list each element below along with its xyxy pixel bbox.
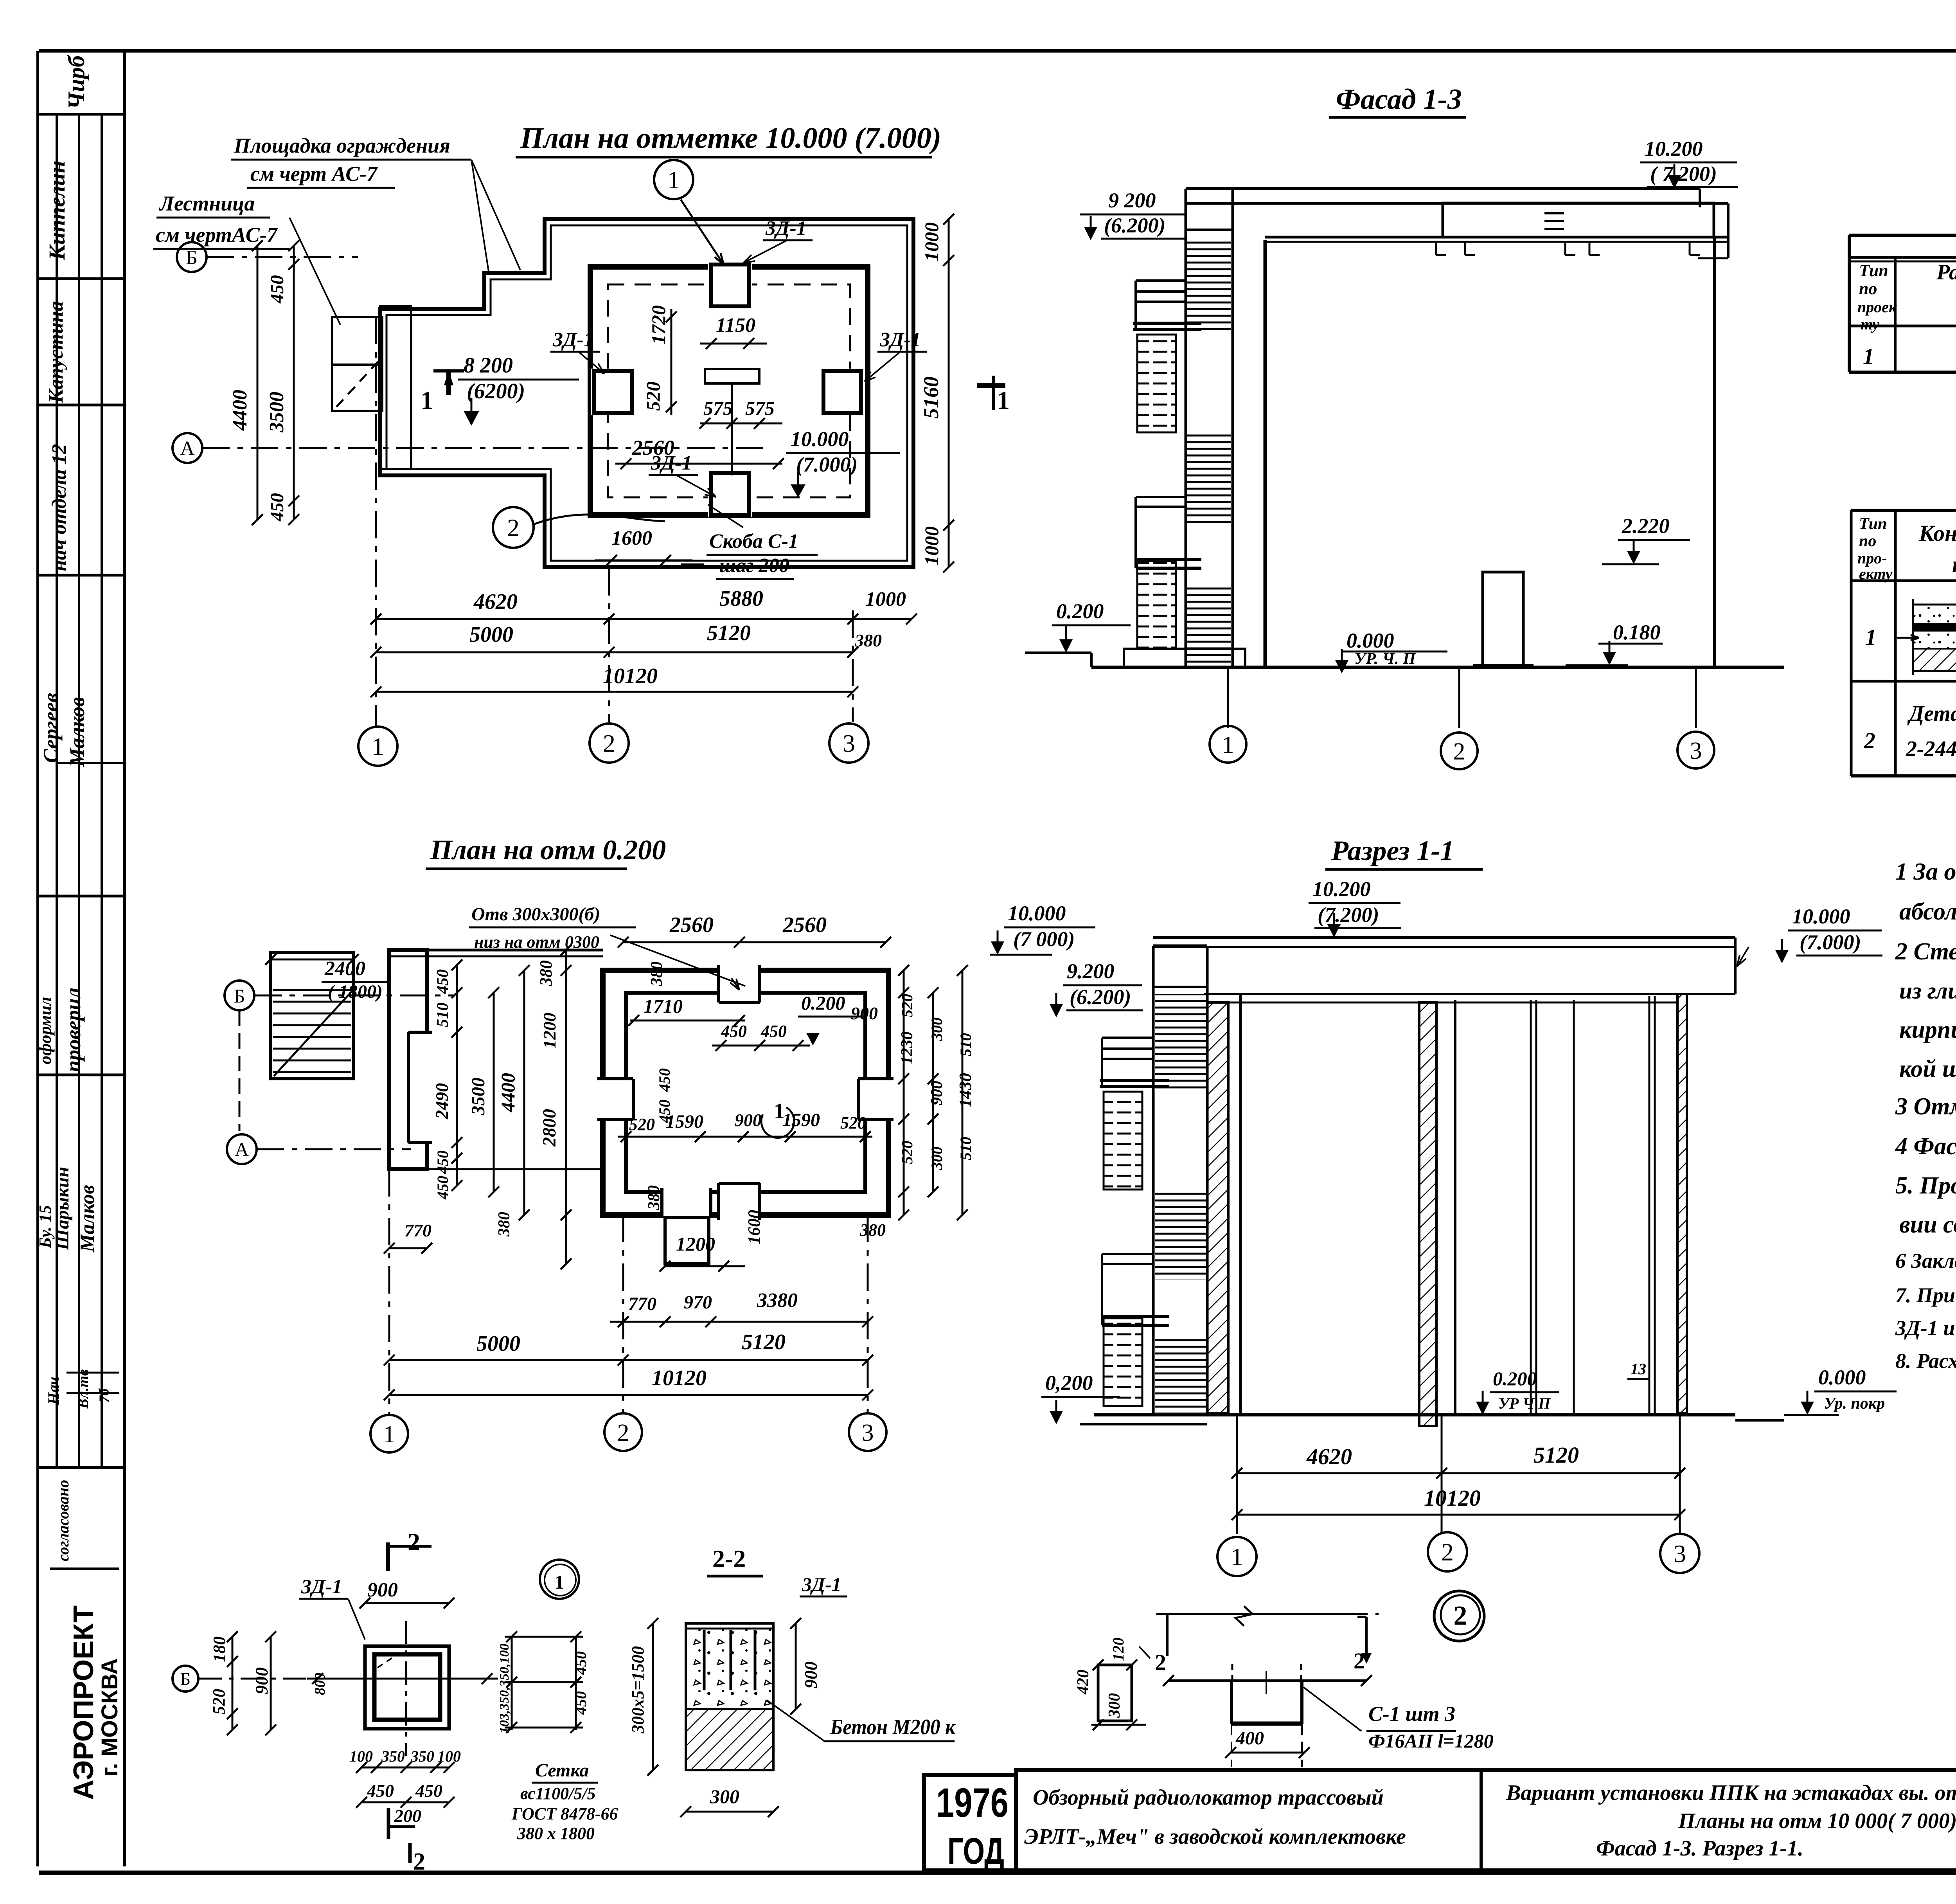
svg-text:450: 450 [434,969,452,994]
svg-text:Скоба С-1: Скоба С-1 [709,530,798,552]
svg-text:450: 450 [721,1022,747,1041]
svg-text:План на отметке 10.000 (7.000): План на отметке 10.000 (7.000) [520,122,941,155]
svg-text:2800: 2800 [539,1109,560,1147]
svg-text:420: 420 [1074,1670,1092,1695]
svg-text:1430: 1430 [956,1073,975,1107]
svg-text:2490: 2490 [432,1083,452,1119]
svg-text:180: 180 [210,1636,229,1662]
svg-text:по: по [1859,279,1877,298]
svg-text:10120: 10120 [1424,1485,1481,1511]
svg-text:Ф16АII l=1280: Ф16АII l=1280 [1368,1730,1494,1752]
svg-text:2 Стены здания выполнять: 2 Стены здания выполнять из силикатного … [1895,938,1956,965]
svg-text:4620: 4620 [1306,1444,1352,1469]
svg-text:1: 1 [1222,732,1234,758]
svg-text:1200: 1200 [676,1233,715,1255]
svg-text:2: 2 [1864,728,1875,753]
svg-text:450: 450 [572,1651,590,1675]
svg-text:300: 300 [710,1785,739,1807]
svg-text:0.000: 0.000 [1347,629,1394,652]
svg-text:Конструкция: Конструкция [1918,520,1956,546]
svg-text:900: 900 [735,1110,762,1130]
svg-text:Обзорный радиолокатор трассовы: Обзорный радиолокатор трассовый [1033,1785,1384,1810]
svg-text:2: 2 [1155,1650,1166,1675]
svg-text:( 7.200): ( 7.200) [1650,162,1717,185]
svg-text:510: 510 [434,1002,452,1027]
svg-text:Вл.тв: Вл.тв [75,1369,92,1409]
svg-text:7. При ветровой нагрузке бо: 7. При ветровой нагрузке больше q = 45кг… [1895,1283,1956,1307]
svg-text:10.000: 10.000 [1792,905,1850,928]
svg-text:1600: 1600 [611,527,652,549]
svg-text:520: 520 [898,994,916,1017]
svg-text:380: 380 [648,961,666,986]
svg-text:Планы на отм 10 000( 7 00: Планы на отм 10 000( 7 000),0.300. [1678,1809,1956,1833]
svg-text:(7 000): (7 000) [1013,927,1075,951]
svg-text:450: 450 [434,1150,451,1174]
svg-text:520: 520 [898,1141,916,1164]
svg-text:Фасад 1-3: Фасад 1-3 [1336,83,1462,115]
svg-text:6 Закладную деталь 3Д-1 см на: 6 Закладную деталь 3Д-1 см на листе АС-6 [1895,1249,1956,1272]
svg-text:4620: 4620 [473,590,518,614]
svg-text:400: 400 [1235,1728,1264,1749]
svg-text:1590: 1590 [782,1110,820,1130]
svg-text:см черт АС-7: см черт АС-7 [250,162,378,185]
svg-text:2: 2 [617,1420,629,1446]
svg-text:пола: пола [1952,552,1956,577]
svg-text:Отв 300х300(б): Отв 300х300(б) [471,904,600,925]
svg-text:10.200: 10.200 [1645,137,1703,160]
svg-text:0.000: 0.000 [1818,1366,1866,1389]
svg-text:450: 450 [434,1176,451,1200]
svg-text:2: 2 [1454,1601,1467,1631]
svg-text:1720: 1720 [647,305,669,344]
svg-text:900: 900 [928,1081,946,1105]
svg-text:ЭРЛТ-„Меч" в заводской комплек: ЭРЛТ-„Меч" в заводской комплектовке [1024,1825,1406,1849]
svg-text:520: 520 [642,382,664,411]
svg-text:Ур. покр: Ур. покр [1824,1395,1885,1413]
svg-text:см чертАС-7: см чертАС-7 [156,223,278,247]
svg-text:1: 1 [383,1421,396,1448]
svg-text:1230: 1230 [898,1031,916,1064]
svg-text:5120: 5120 [1534,1442,1579,1468]
svg-text:3Д-1: 3Д-1 [301,1576,342,1598]
svg-text:Тип: Тип [1859,261,1888,280]
svg-text:1: 1 [997,386,1010,415]
svg-text:520: 520 [209,1689,228,1715]
svg-text:проек: проек [1857,298,1897,316]
svg-text:10.200: 10.200 [1312,877,1371,901]
svg-text:3Д-1: 3Д-1 [802,1573,841,1595]
svg-text:1: 1 [1231,1543,1243,1571]
svg-text:4 Фасады и разрезы выпол: 4 Фасады и разрезы выполнены для эстакад… [1895,1133,1956,1160]
svg-text:380 х 1800: 380 х 1800 [517,1824,595,1843]
svg-text:1600: 1600 [744,1210,764,1244]
svg-text:2-244-1 вып 1: 2-244-1 вып 1 [1906,737,1956,761]
svg-text:770: 770 [405,1220,431,1240]
svg-text:Сергеев: Сергеев [39,693,63,763]
svg-text:0.200: 0.200 [1493,1368,1537,1389]
svg-text:(7.200): (7.200) [1318,903,1379,927]
svg-text:1000: 1000 [920,222,942,261]
svg-text:900: 900 [801,1661,821,1688]
svg-text:(6.200): (6.200) [1070,985,1131,1009]
svg-text:100: 100 [349,1747,373,1765]
svg-text:3Д-1: 3Д-1 [879,329,921,351]
svg-text:300: 300 [1106,1693,1124,1718]
svg-text:кой швов.: кой швов. [1899,1056,1956,1082]
svg-text:С-1 шт 3: С-1 шт 3 [1368,1702,1455,1726]
svg-text:1590: 1590 [666,1111,703,1132]
svg-text:Сетка: Сетка [535,1760,589,1781]
svg-text:1976: 1976 [936,1780,1009,1826]
svg-text:г. МОСКВА: г. МОСКВА [97,1658,122,1776]
svg-text:Шарыкин: Шарыкин [52,1167,73,1251]
svg-text:2-2: 2-2 [712,1545,746,1573]
svg-text:970: 970 [684,1292,712,1313]
svg-text:1000: 1000 [865,588,906,610]
svg-text:Малков: Малков [65,697,89,767]
svg-text:АЭРОПРОЕКТ: АЭРОПРОЕКТ [68,1605,99,1800]
svg-text:13: 13 [1631,1360,1646,1378]
svg-text:5120: 5120 [742,1330,786,1354]
svg-text:5. Производство и приемку: 5. Производство и приемку работ выполнят… [1895,1172,1956,1199]
svg-text:3 Отметки в скобках толь: 3 Отметки в скобках только для эстакады … [1895,1093,1956,1120]
svg-text:3: 3 [1690,738,1702,764]
svg-text:екту: екту [1859,565,1893,583]
svg-text:450: 450 [267,275,288,304]
svg-text:450: 450 [656,1068,673,1092]
svg-text:520: 520 [629,1115,655,1134]
svg-text:2: 2 [1453,738,1465,765]
svg-text:350: 350 [410,1747,434,1765]
svg-text:900: 900 [851,1003,878,1023]
svg-text:0,200: 0,200 [1045,1371,1093,1395]
svg-text:1: 1 [372,732,384,760]
svg-text:300х5=1500: 300х5=1500 [628,1646,647,1734]
svg-text:( 1800): ( 1800) [328,981,383,1002]
svg-text:5120: 5120 [707,621,751,645]
svg-text:3: 3 [843,729,855,757]
svg-text:450: 450 [267,493,288,522]
svg-text:УР. Ч. П: УР. Ч. П [1354,650,1416,668]
svg-text:120: 120 [1109,1638,1127,1661]
svg-text:3500: 3500 [266,392,288,433]
svg-text:по: по [1859,532,1876,550]
svg-text:Разрез 1-1: Разрез 1-1 [1331,835,1454,866]
svg-text:450: 450 [760,1022,787,1041]
svg-text:Б: Б [234,985,245,1007]
svg-text:350: 350 [381,1747,405,1765]
svg-text:3: 3 [1674,1540,1686,1567]
svg-text:Тип: Тип [1859,515,1887,533]
svg-text:575: 575 [703,397,733,419]
svg-text:абсолютной отметке: абсолютной отметке [1899,898,1956,925]
svg-text:1: 1 [667,166,680,194]
svg-text:900: 900 [252,1667,271,1694]
svg-text:оформил: оформил [36,997,55,1065]
svg-text:2: 2 [507,514,520,542]
svg-text:200: 200 [394,1806,421,1826]
svg-text:Чирб: Чирб [63,55,89,110]
svg-text:кирпича марки 75 на раство: кирпича марки 75 на растворе проектной м… [1899,1017,1956,1043]
svg-text:10.000: 10.000 [791,427,849,451]
svg-text:ГОСТ 8478-66: ГОСТ 8478-66 [511,1804,618,1823]
svg-text:Деталь 323: Деталь 323 [1907,702,1956,726]
svg-text:900: 900 [367,1579,398,1601]
svg-text:Вариант установки ППК на э: Вариант установки ППК на эстакадах вы. о… [1506,1781,1956,1805]
svg-text:ту: ту [1861,315,1879,333]
svg-text:вии со СНиП III-В.4-72.: вии со СНиП III-В.4-72. [1899,1211,1956,1238]
svg-text:5000: 5000 [476,1332,520,1356]
svg-text:103,350,350,100: 103,350,350,100 [497,1644,512,1734]
svg-text:1 За отметку - ±0.000 , прин: 1 За отметку - ±0.000 , принят уровень п… [1895,858,1956,885]
svg-text:Фасад 1-3. Разрез 1-1.: Фасад 1-3. Разрез 1-1. [1596,1836,1803,1861]
svg-text:1000: 1000 [920,526,942,565]
svg-text:Б: Б [186,247,198,269]
svg-text:3Д-1: 3Д-1 [765,217,807,239]
svg-text:3Д-1 и узел ее установки. П: 3Д-1 и узел ее установки. Парусность зер… [1895,1316,1956,1340]
svg-text:380: 380 [854,630,882,650]
svg-text:510: 510 [957,1137,974,1160]
svg-text:300: 300 [928,1146,946,1170]
svg-text:2.220: 2.220 [1622,514,1670,538]
svg-text:1: 1 [421,386,433,415]
svg-text:проверил: проверил [61,988,85,1072]
svg-text:575: 575 [745,397,775,419]
svg-text:770: 770 [628,1294,656,1314]
svg-text:10.000: 10.000 [1008,902,1066,925]
svg-text:9 200: 9 200 [1108,189,1156,212]
svg-text:про-: про- [1857,549,1887,567]
svg-text:(7.000): (7.000) [796,453,858,476]
svg-text:1: 1 [1863,344,1874,369]
svg-text:0.180: 0.180 [1613,621,1661,644]
svg-text:520: 520 [840,1113,866,1132]
svg-text:Бетон М200 к: Бетон М200 к [830,1715,956,1739]
svg-text:Лестница: Лестница [159,192,255,215]
svg-text:5880: 5880 [719,587,763,611]
svg-text:А: А [235,1138,249,1160]
svg-text:2: 2 [603,729,615,757]
svg-text:8. Расход стали на скобы с: 8. Расход стали на скобы см в техническо… [1895,1349,1956,1373]
svg-text:0.200: 0.200 [1056,599,1104,623]
svg-text:2: 2 [408,1528,420,1556]
svg-text:ГОД: ГОД [947,1830,1004,1872]
svg-text:(6200): (6200) [467,379,525,403]
svg-text:2560: 2560 [782,913,827,937]
svg-text:1: 1 [555,1571,565,1593]
svg-text:10120: 10120 [603,664,658,688]
svg-text:4400: 4400 [229,390,251,431]
svg-text:Киппелин: Киппелин [44,160,70,261]
svg-text:3500: 3500 [468,1078,489,1116]
svg-text:(7.000): (7.000) [1800,930,1861,954]
svg-text:3Д-1: 3Д-1 [552,329,594,351]
svg-text:шаг 200: шаг 200 [719,554,789,577]
svg-text:Размер в кладке: Размер в кладке [1936,260,1956,284]
svg-text:2560: 2560 [669,913,714,937]
svg-text:из глиняного обыкновенного: из глиняного обыкновенного пластического… [1899,978,1956,1004]
svg-text:2: 2 [1441,1538,1454,1566]
svg-text:450: 450 [572,1691,590,1715]
svg-text:380: 380 [859,1220,886,1240]
svg-text:2: 2 [1354,1648,1365,1674]
svg-text:510: 510 [957,1033,974,1056]
svg-text:3380: 3380 [757,1289,798,1312]
svg-text:8 200: 8 200 [464,353,513,378]
svg-text:Б: Б [180,1669,191,1689]
svg-text:А: А [180,437,195,460]
svg-text:7б: 7б [96,1388,112,1403]
svg-text:низ на отм 0300: низ на отм 0300 [474,932,599,952]
svg-text:(6.200): (6.200) [1104,214,1165,237]
svg-text:вс1100/5/5: вс1100/5/5 [520,1784,596,1803]
svg-text:5160: 5160 [919,376,943,419]
svg-text:2: 2 [413,1848,425,1875]
svg-text:3: 3 [862,1420,874,1446]
svg-text:380: 380 [645,1185,663,1210]
svg-text:2400: 2400 [324,957,365,980]
svg-text:Площадка ограждения: Площадка ограждения [234,134,450,157]
svg-text:800: 800 [312,1673,328,1695]
svg-text:УР Ч П: УР Ч П [1498,1395,1551,1412]
svg-text:Нач: Нач [45,1377,62,1405]
svg-text:9.200: 9.200 [1067,959,1115,983]
svg-text:согласовано: согласовано [54,1480,72,1561]
svg-text:1: 1 [1865,624,1877,650]
svg-text:380: 380 [495,1212,513,1237]
svg-text:0.200: 0.200 [801,992,845,1014]
svg-text:1200: 1200 [539,1013,559,1049]
svg-text:План на отм 0.200: План на отм 0.200 [430,834,666,866]
svg-text:5000: 5000 [469,623,513,647]
svg-text:450: 450 [367,1781,394,1801]
svg-text:450: 450 [415,1781,442,1801]
svg-text:Капустина: Капустина [45,301,67,403]
svg-text:300: 300 [928,1017,946,1041]
svg-text:4400: 4400 [497,1073,519,1112]
svg-text:нач отдела 12: нач отдела 12 [48,444,70,571]
svg-text:1710: 1710 [644,995,683,1017]
svg-text:380: 380 [536,960,556,986]
svg-text:10120: 10120 [652,1366,707,1390]
svg-text:1150: 1150 [716,314,755,337]
svg-text:Малков: Малков [76,1185,99,1253]
